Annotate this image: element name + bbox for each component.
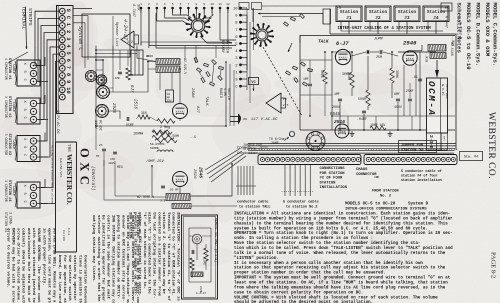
label TALK S4 — [204, 96, 208, 106]
label TERMINAL STRIPS — [21, 6, 34, 49]
coupling caps JUMP — [352, 38, 399, 57]
rotated notes INSTALLATION block — [128, 212, 181, 301]
svg-text:VOLUME CONTROL = With slotted: VOLUME CONTROL = With slotted shaft is l… — [234, 295, 438, 300]
svg-text:Conductor: Conductor — [237, 151, 258, 156]
svg-text:tity (station number) by wirin: tity (station number) by wiring a jumper… — [234, 216, 453, 221]
wire long arrow line — [258, 13, 323, 25]
capacitor C15 .1MF — [113, 72, 122, 80]
svg-text:.1MF: .1MF — [113, 77, 120, 80]
svg-text:25M: 25M — [376, 55, 382, 59]
svg-text:1M: 1M — [130, 74, 134, 77]
svg-text:25Z6: 25Z6 — [192, 169, 196, 179]
unit tag 2-3-B — [427, 133, 448, 150]
svg-text:TALK: TALK — [318, 40, 329, 45]
svg-text:OPERATION:- There can be no in: OPERATION:- There can be no inter-com- — [135, 215, 140, 303]
tube socket X2 — [96, 75, 106, 85]
margin page number — [490, 252, 497, 278]
wires OXC section — [73, 9, 226, 127]
svg-text:the selector switch at OXC uni: the selector switch at OXC unit. — [67, 255, 72, 303]
label TALK — [318, 40, 329, 45]
caption 5 conductor cable right — [401, 169, 442, 183]
ground symbol amplifier 2 — [388, 131, 393, 137]
svg-text:U.S.A.: U.S.A. — [67, 228, 71, 236]
svg-text:4: 4 — [164, 3, 166, 6]
svg-text:3 COND.: 3 COND. — [9, 212, 13, 226]
svg-text:115V: 115V — [93, 120, 97, 129]
dashed link S2 to socket X3 — [263, 47, 302, 116]
terminal strip TS1 — [57, 6, 74, 114]
wire amplifier internals — [332, 52, 455, 130]
output transformer T3 — [137, 194, 191, 209]
svg-text:"LISTEN" position.: "LISTEN" position. — [234, 256, 279, 261]
tube V3 2516 — [330, 113, 349, 138]
svg-text:5: 5 — [172, 3, 174, 6]
caption 5 conductor cable No2 — [283, 200, 319, 210]
label 2516 — [133, 99, 137, 110]
capacitor C13 1MF — [108, 152, 117, 165]
svg-text:case to obtain correct polarit: case to obtain correct polarity for oper… — [234, 290, 363, 295]
capacitor C14 .05MF — [161, 186, 179, 191]
wire S1 to bus — [149, 13, 236, 48]
svg-text:LOAD: LOAD — [203, 258, 206, 265]
label .25MF amp — [404, 83, 414, 116]
svg-text:PAGE 8-2: PAGE 8-2 — [490, 252, 497, 278]
OXC extra wiring — [96, 46, 234, 127]
svg-text:#1: #1 — [346, 16, 352, 21]
svg-text:anticlockwise hole thru back o: anticlockwise hole thru back of — [26, 228, 31, 303]
svg-text:sation may call and "busy-stat: sation may call and "busy-station" switc… — [125, 215, 130, 303]
svg-text:proper station number in order: proper station number in order that the … — [234, 271, 386, 276]
condenser block CB1 — [131, 50, 143, 75]
tube V6 output — [173, 88, 200, 119]
svg-text:tion which is to be called. Pr: tion which is to be called. Press down "… — [234, 246, 453, 251]
dotted row above TS4 — [366, 148, 458, 151]
AC plug P1 — [230, 114, 247, 125]
svg-text:-.5: -.5 — [190, 136, 196, 140]
svg-text:Station: Station — [340, 10, 358, 15]
wire OXC top runs — [95, 42, 230, 63]
label 25Z6 V5 — [111, 103, 115, 114]
label A-7352-M — [458, 22, 462, 39]
label switch arrow — [288, 35, 300, 52]
wire fan to rotary switch S1 — [141, 9, 236, 48]
svg-text:5 conductor cable: 5 conductor cable — [283, 200, 319, 205]
rotary switch S1 — [185, 13, 210, 38]
stamp box 4-24-37 — [82, 14, 130, 57]
svg-text:Terminal "1" to station #1, to: Terminal "1" to station #1, to "2" of — [166, 212, 171, 301]
resistor R10 350 — [138, 111, 150, 119]
resistor R13 — [152, 135, 196, 140]
svg-text:No. 2: No. 2 — [380, 195, 391, 199]
wire harness TS1 to stations — [8, 11, 59, 203]
label 6J7 V4 — [129, 85, 133, 93]
note column left of title block — [51, 145, 55, 205]
svg-text:It is necessary when a person: It is necessary when a person calls anot… — [234, 261, 423, 266]
ground symbol amplifier — [350, 131, 355, 137]
label RADIO-ON SWITCH — [219, 88, 231, 100]
wire caps to output — [104, 160, 166, 200]
terminal strip TS4 — [364, 155, 457, 165]
svg-text:Conversation between outlying: Conversation between outlying sta- — [83, 255, 88, 303]
svg-text:ING STATION. Outlying stations: ING STATION. Outlying stations may call — [111, 215, 116, 303]
label 117V-AC-DC bottom — [251, 118, 278, 122]
caption FROM STATION No 2 — [372, 190, 399, 199]
volume control VC — [249, 78, 259, 92]
svg-text:connected in a similar manner.: connected in a similar manner. From — [156, 212, 161, 297]
label STATION #3 cable — [4, 134, 16, 161]
svg-text:SPK: SPK — [136, 4, 140, 11]
title MODELS OC-5 OC-20 — [345, 203, 429, 207]
svg-text:outlying station may listen.: outlying station may listen. — [91, 215, 96, 282]
svg-text:station so that operator recei: station so that operator receiving call … — [234, 266, 446, 271]
svg-text:3: 3 — [156, 3, 158, 6]
svg-text:10: 10 — [210, 3, 214, 6]
tube socket X1 — [85, 70, 96, 81]
svg-text:VOLUME CONTROL -The volume con: VOLUME CONTROL -The volume control, — [36, 228, 41, 303]
label System C — [77, 26, 83, 50]
unit tag OCM-A — [426, 78, 449, 133]
resistor R11 2Meg — [157, 119, 175, 130]
svg-text:in with proper polarity.: in with proper polarity. — [41, 228, 46, 286]
rotary switch S2 — [250, 23, 274, 47]
inter-unit cable bus — [248, 144, 456, 154]
svg-text:-.010: -.010 — [424, 52, 428, 62]
svg-text:screw driver to desired volume: screw driver to desired volume. — [16, 228, 21, 302]
wire S2 risers — [247, 8, 253, 70]
svg-text:2516: 2516 — [133, 99, 137, 110]
svg-text:munication between OXM units.: munication between OXM units. Conver- — [130, 215, 135, 303]
dotted row above TS3 — [262, 148, 359, 151]
label 115V-AC-DC — [93, 120, 102, 131]
wire amplifier top rail — [300, 36, 455, 131]
label Common Conductor — [237, 147, 268, 157]
tube V4 socket — [97, 86, 110, 99]
svg-text:conductor cable: conductor cable — [237, 200, 269, 205]
svg-text:#2 OF FOUR: #2 OF FOUR — [320, 177, 344, 181]
resistor R5 1MEG — [320, 52, 327, 116]
caption INTER-UNIT CABLING — [337, 27, 431, 31]
svg-text:INSTALLATION = All stations ar: INSTALLATION = All stations are identica… — [234, 212, 450, 217]
svg-text:to station TALL: to station TALL — [239, 205, 271, 210]
svg-text:JUMP: JUMP — [374, 38, 384, 42]
svg-text:6: 6 — [180, 3, 182, 6]
svg-text:selector switching in order th: selector switching in order that the — [96, 215, 101, 302]
svg-text:wersed (PGB GB1). Remates may: wersed (PGB GB1). Remates may also — [52, 228, 57, 303]
svg-text:station # 2. Other stations ma: station # 2. Other stations may be — [161, 212, 166, 294]
capacitor C2 .04MF — [357, 111, 367, 121]
svg-text:9: 9 — [203, 3, 205, 6]
svg-text:board, the line cord plug shou: board, the line cord plug should be — [57, 255, 62, 303]
tube socket X3 — [306, 132, 325, 151]
label A-7447 SPK — [131, 3, 140, 18]
svg-text:connected to "C" of OXM,statio: connected to "C" of OXM,station #1. — [171, 212, 176, 296]
label TO CHAS 28MF — [269, 137, 289, 145]
resistor R12 — [152, 130, 172, 134]
caption CHASSIS CONNECTOR — [356, 168, 379, 178]
top terminal row — [140, 3, 230, 13]
svg-text:station by operator switching: station by operator switching of — [72, 255, 77, 303]
svg-text:OXC: OXC — [78, 148, 92, 189]
instructions paragraph — [234, 212, 453, 303]
label 117V-AC-DC left — [55, 110, 59, 135]
jumper box STATION 34 — [399, 141, 437, 154]
svg-text:talk in a normal tone of voice: talk in a normal tone of voice. When rel… — [234, 251, 446, 256]
svg-text:DRIVERS may be had with a scre: DRIVERS may be had with a screw — [10, 228, 15, 303]
resistor R14 160MW — [133, 131, 169, 137]
remote unit inset box — [182, 215, 218, 299]
svg-text:350: 350 — [141, 111, 147, 115]
label 10MF-25V — [146, 159, 164, 164]
title block THE WEBSTER CO — [56, 142, 77, 252]
svg-text:central in the same manner but: central in the same manner but must — [106, 215, 111, 300]
caption conductor cable TALL — [237, 200, 271, 210]
capacitor C12 .25MF — [96, 144, 106, 158]
capacitor C11 10MF — [166, 90, 174, 103]
svg-text:A-7447: A-7447 — [131, 3, 135, 18]
resistor R4 — [370, 123, 386, 130]
svg-text:STATION #1: STATION #1 — [243, 147, 262, 151]
interstage transformer T1 — [146, 55, 186, 75]
speaker SP2 — [121, 31, 139, 48]
svg-text:CHAOS: CHAOS — [356, 168, 368, 172]
speaker SP1 — [266, 93, 289, 113]
svg-text:art: art — [443, 136, 446, 141]
wires lower OXC — [96, 126, 246, 206]
wire fan below TS3 — [282, 165, 314, 197]
svg-text:tions is possible through cent: tions is possible through central — [77, 255, 82, 303]
svg-text:8: 8 — [195, 3, 197, 6]
svg-text:2.50M: 2.50M — [168, 135, 179, 139]
svg-text:cabinet) should be adjusted wi: cabinet) should be adjusted with a — [21, 228, 26, 303]
svg-text:the last scripting station, th: the last scripting station, the ter- — [152, 212, 157, 298]
svg-text:.05MF: .05MF — [124, 123, 134, 127]
junction dots OXC — [95, 49, 233, 167]
svg-text:7: 7 — [187, 3, 189, 6]
corner parts top-right — [436, 3, 454, 46]
terminal column TS2 — [233, 7, 247, 90]
label STATION #1 cable — [4, 58, 16, 85]
svg-text:2546: 2546 — [403, 40, 417, 47]
svg-text:WEBSTER CO.: WEBSTER CO. — [65, 154, 74, 205]
rotated notes OPERATION block — [91, 215, 140, 303]
label ROTARY SWITCH — [220, 40, 229, 54]
resistor R2 — [358, 90, 370, 106]
capacitor C4 .01 — [412, 75, 422, 81]
svg-text:IMPORTANT = The system must be: IMPORTANT = The system must be well grou… — [234, 276, 451, 281]
svg-text:4 CONDUCTOR: 4 CONDUCTOR — [4, 58, 8, 80]
resistor R16 — [126, 68, 134, 80]
svg-text:FOR STATION: FOR STATION — [320, 172, 346, 176]
title INTER-OFFICE COMMUNICATION — [345, 207, 427, 211]
margin brand WEBSTER CO. — [486, 112, 496, 179]
svg-text:#2: #2 — [375, 16, 381, 21]
svg-text:chassis) to the terminal beari: chassis) to the terminal bearing the num… — [234, 221, 448, 226]
label MEG — [117, 165, 123, 169]
svg-text:to station No.2: to station No.2 — [286, 205, 318, 210]
svg-text:System D: System D — [408, 203, 429, 207]
svg-text:.04MF: .04MF — [357, 117, 367, 121]
margin model list — [455, 3, 498, 71]
label 25M — [376, 55, 382, 59]
svg-text:W2-5160: W2-5160 — [450, 42, 454, 56]
station box S#3 — [17, 133, 48, 162]
rotated notes bottom-left block — [5, 228, 87, 303]
svg-text:25Z6: 25Z6 — [111, 103, 115, 114]
svg-text:FROM STATION: FROM STATION — [372, 190, 399, 194]
station box S#4 — [17, 179, 48, 208]
svg-text:nothing in this station may be: nothing in this station may be altered — [51, 145, 55, 205]
coil L1 — [157, 150, 173, 152]
svg-text:Est. 1909: Est. 1909 — [62, 230, 66, 241]
svg-text:from where the talking emanate: from where the talking emanates should h… — [234, 285, 446, 290]
station box S#2 — [17, 95, 48, 124]
svg-text:2-3-B: 2-3-B — [428, 135, 434, 149]
svg-text:For AC operation, at hook is: For AC operation, at hook is — [62, 255, 67, 303]
wire top edge line — [239, 3, 340, 10]
tube V2 2546 — [403, 40, 422, 117]
svg-text:Station: Station — [369, 10, 387, 15]
svg-text:MODELS OC-5 to OC-20: MODELS OC-5 to OC-20 — [345, 203, 396, 207]
svg-text:minal "C" is connected back to: minal "C" is connected back to the — [147, 212, 152, 294]
svg-text:driver to desired volume.: driver to desired volume. — [5, 228, 10, 288]
tube V7 2546 — [173, 167, 204, 187]
label STATION 4 bottom-left — [3, 212, 13, 232]
capacitor C1 8MF — [394, 92, 402, 109]
svg-text:1: 1 — [140, 3, 142, 6]
amplifier extra rails — [300, 52, 455, 130]
label STATION #4 cable — [4, 180, 16, 207]
unit label OXC (Central) — [78, 148, 97, 191]
svg-text:11: 11 — [218, 3, 222, 6]
svg-text:5 conductor cable of: 5 conductor cable of — [401, 169, 442, 174]
svg-text:WEBSTER CO.: WEBSTER CO. — [486, 112, 496, 179]
svg-text:station #4 of four: station #4 of four — [401, 174, 438, 179]
svg-text:2 Meg: 2 Meg — [160, 126, 170, 130]
wire bundle left of TS3 — [236, 166, 256, 195]
svg-text:INSTALLATION:- Terminal "0" o: INSTALLATION:- Terminal "0" of OXC is — [176, 212, 181, 301]
station box S#1 — [17, 57, 48, 86]
svg-text:REMOTE-TEL UNIT (W-171): REMOTE-TEL UNIT (W-171) — [214, 218, 218, 262]
svg-text:A-2-47: A-2-47 — [196, 292, 206, 295]
grommet G1 — [289, 131, 295, 137]
svg-text:system is built for operation: system is built for operation on 110 Vol… — [234, 226, 428, 231]
caption CONNECTIONS FOR STATION — [320, 167, 348, 190]
svg-text:AC-DC: AC-DC — [98, 120, 102, 131]
svg-text:with switch attached (marked t: with switch attached (marked turn & — [31, 228, 36, 303]
svg-text:7: 7 — [235, 29, 237, 33]
label 250MW — [342, 72, 350, 76]
svg-text:INSTALLATION: INSTALLATION — [320, 186, 348, 190]
svg-text:12: 12 — [226, 3, 230, 6]
resistor R3 — [390, 68, 399, 83]
switch S3 talk-listen blades — [284, 14, 313, 86]
junction dots amp — [309, 51, 421, 131]
station boxes row — [336, 6, 449, 22]
capacitor C5 1MF — [303, 60, 312, 116]
resistor R15 2.50M — [155, 135, 179, 143]
svg-text:10: 10 — [233, 8, 238, 12]
label STATION #2 cable — [4, 96, 16, 123]
svg-text:Sta. #4: Sta. #4 — [464, 156, 478, 160]
tube V5 socket — [96, 105, 109, 118]
capacitor C3 .1MF — [332, 92, 342, 109]
label JUMPER FOR STATION #1 — [243, 143, 262, 151]
svg-text:INTER-OFFICE COMMUNICATION SYS: INTER-OFFICE COMMUNICATION SYSTEMS — [345, 207, 427, 211]
svg-text:THE: THE — [67, 144, 72, 152]
svg-text:Move the station selector swit: Move the station selector switch to the … — [234, 241, 420, 246]
svg-text:STRIPS: STRIPS — [27, 8, 33, 26]
output transformer T2 — [424, 42, 455, 62]
svg-text:be identified to operator for: be identified to operator for proper — [101, 215, 106, 302]
svg-text:CONNECTOR: CONNECTOR — [356, 173, 377, 177]
svg-text:OPERATION = Turn station knob: OPERATION = Turn station knob to right (… — [234, 231, 453, 236]
svg-text:JUMP #3V: JUMP #3V — [370, 123, 385, 127]
label 500MMF — [148, 142, 165, 150]
capacitor C10 .05MF — [124, 117, 134, 127]
svg-text:"1" of each station is wired t: "1" of each station is wired to- — [142, 212, 147, 289]
wire TS2 risers — [247, 8, 254, 103]
svg-text:(Central): (Central) — [90, 166, 96, 191]
terminal strip TS3 — [258, 155, 361, 165]
svg-text:STATION #4: STATION #4 — [3, 212, 7, 232]
svg-text:STATION: STATION — [320, 181, 337, 185]
svg-text:2546: 2546 — [198, 167, 204, 178]
svg-text:6-J7: 6-J7 — [336, 41, 349, 47]
svg-text:station installation: station installation — [401, 178, 442, 183]
resistor R1 250M — [346, 72, 354, 88]
tube V1 6J7 — [335, 41, 350, 65]
cable bus below station boxes — [323, 9, 456, 150]
feed arrow into OCM-A — [435, 60, 439, 78]
svg-text:onds. In calling a station the: onds. In calling a station the procedure… — [234, 236, 373, 241]
svg-text:CONNECTIONS: CONNECTIONS — [320, 167, 346, 171]
switch S4 blades — [194, 58, 223, 87]
svg-text:INTER-UNIT CABLING OF 4 STATIO: INTER-UNIT CABLING OF 4 STATION SYSTEM — [337, 27, 431, 31]
tag station 4 right — [460, 152, 483, 161]
svg-text:operation, line cord must be p: operation, line cord must be plugged — [46, 228, 51, 303]
svg-text:least one of the stations. On: least one of the stations. On AC, if a l… — [234, 281, 448, 286]
svg-text:ponding to station number on O: ponding to station number on OUTLY- — [115, 215, 120, 299]
svg-text:answer on OXC terminal strip c: answer on OXC terminal strip corres- — [120, 215, 125, 301]
svg-text:2: 2 — [148, 3, 150, 6]
